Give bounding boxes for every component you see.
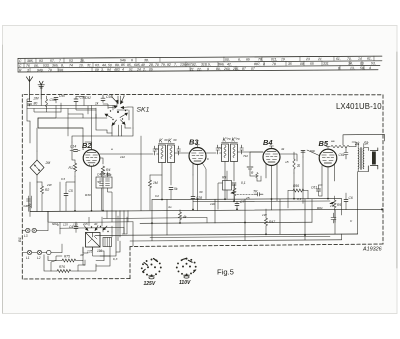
svg-text:31,: 31,	[87, 63, 92, 67]
svg-text:51: 51	[129, 68, 133, 72]
mains selector contacts	[84, 226, 109, 254]
parts table frame	[18, 56, 382, 72]
svg-text:5,: 5,	[208, 62, 211, 66]
svg-text:6,3: 6,3	[113, 257, 118, 261]
right section long wires	[303, 142, 356, 222]
extra top-left wires	[27, 98, 128, 119]
top-left bus wires	[27, 95, 117, 118]
svg-text:4: 4	[122, 68, 124, 72]
svg-text:4k: 4k	[183, 215, 187, 219]
supply bus line 3	[140, 222, 312, 223]
svg-text:4u: 4u	[168, 205, 172, 209]
svg-text:34,: 34,	[348, 62, 353, 66]
svg-text:0,1: 0,1	[297, 197, 302, 201]
tube B5	[319, 149, 337, 167]
svg-text:091: 091	[58, 68, 64, 72]
svg-text:30: 30	[199, 190, 203, 194]
trimmer caps beside ift2	[216, 145, 220, 154]
svg-text:L1: L1	[26, 256, 30, 260]
svg-text:C90: C90	[59, 94, 65, 98]
pickup diamond connector	[30, 151, 50, 182]
svg-text:3,: 3,	[101, 68, 104, 72]
svg-text:50,: 50,	[225, 58, 230, 62]
left bus joiner	[29, 205, 31, 217]
svg-text:866,: 866,	[218, 62, 225, 66]
pilot lamp row 2	[23, 250, 63, 260]
heater dropper resistor 1	[56, 255, 83, 263]
svg-text:14k: 14k	[210, 202, 215, 206]
supply bus line 1b	[193, 200, 330, 203]
tone cap near output	[344, 193, 353, 210]
output transformer	[358, 144, 368, 172]
svg-text:125: 125	[63, 223, 68, 227]
vertical drop B2 anode	[91, 166, 93, 211]
left boundary trimmer cluster	[24, 196, 32, 211]
svg-text:C92: C92	[85, 96, 91, 100]
svg-text:78: 78	[272, 62, 276, 66]
svg-text:SK1: SK1	[137, 107, 150, 114]
trimmer caps beside ift1	[153, 146, 157, 155]
table row 3 values	[19, 66, 371, 72]
svg-text:49: 49	[141, 63, 145, 67]
coupling wire B2 to IFT1	[100, 153, 159, 155]
svg-text:S: S	[297, 163, 300, 168]
svg-text:74: 74	[69, 63, 73, 67]
grid resistor B5 horizontal	[288, 184, 308, 208]
supply bus line 1a	[152, 199, 342, 200]
scattered value labels	[46, 137, 353, 261]
coupling wire B3 to IFT2	[206, 152, 222, 154]
svg-text:61,: 61,	[367, 57, 372, 61]
top line to output stage	[343, 134, 385, 145]
svg-text:2M: 2M	[33, 97, 39, 101]
svg-text:R61: R61	[317, 206, 323, 210]
svg-text:483: 483	[114, 68, 120, 72]
svg-text:C6: C6	[349, 196, 353, 200]
svg-text:GB: GB	[24, 204, 28, 208]
svg-text:09: 09	[95, 68, 99, 72]
tube B4	[263, 149, 280, 166]
svg-text:93: 93	[39, 59, 43, 63]
svg-text:R2: R2	[45, 188, 49, 192]
svg-text:57,: 57,	[50, 59, 55, 63]
svg-text:C61: C61	[311, 186, 317, 190]
svg-text:110: 110	[73, 222, 78, 226]
svg-text:R56: R56	[293, 184, 299, 188]
svg-text:94: 94	[107, 68, 111, 72]
svg-text:24: 24	[136, 68, 141, 72]
grid cap B5 wire	[280, 154, 297, 161]
svg-text:R1: R1	[69, 166, 73, 170]
svg-text:7k2: 7k2	[243, 154, 248, 158]
page right edge	[396, 52, 398, 268]
SK1 to bus vertical	[140, 136, 142, 211]
svg-text:6: 6	[131, 58, 133, 62]
svg-text:8: 8	[338, 66, 340, 70]
cap under B3	[191, 175, 202, 210]
mains transformer block	[86, 233, 101, 248]
svg-text:61,: 61,	[336, 57, 341, 61]
svg-text:06,: 06,	[34, 64, 39, 68]
svg-text:C14: C14	[70, 145, 76, 149]
supply bus line 5	[130, 240, 342, 241]
power feed ladder bottom-left	[44, 211, 133, 272]
mid horizontal wire over transformer	[60, 221, 133, 224]
B5 top grid coil	[331, 145, 349, 147]
svg-text:887,: 887,	[254, 62, 261, 66]
IF transformer 1	[153, 144, 181, 163]
svg-text:C7: C7	[240, 200, 244, 204]
svg-text:385,: 385,	[27, 59, 34, 63]
svg-text:44,: 44,	[102, 63, 107, 67]
vertical drop B2 screen	[102, 182, 104, 211]
svg-text:B4: B4	[263, 138, 272, 147]
svg-text:53,: 53,	[371, 61, 376, 65]
loudspeaker	[364, 148, 378, 172]
cap C100 top	[74, 96, 86, 105]
svg-text:07: 07	[251, 67, 255, 71]
small cap at mains	[69, 222, 78, 233]
supply bus line 2	[30, 209, 382, 211]
table row 1 values	[19, 57, 372, 64]
voltage selector dial 110V	[176, 258, 197, 278]
heater bus extra wires	[60, 211, 207, 238]
heater wiring	[48, 211, 127, 271]
svg-text:R75: R75	[64, 255, 70, 259]
cap C under volume	[235, 200, 244, 209]
svg-text:8,: 8,	[61, 63, 64, 67]
svg-text:C99: C99	[50, 98, 56, 102]
svg-text:R30: R30	[85, 193, 91, 197]
svg-text:89,: 89,	[115, 63, 120, 67]
svg-text:85: 85	[121, 63, 125, 67]
svg-text:u5: u5	[285, 160, 289, 164]
svg-text:76: 76	[26, 64, 30, 68]
svg-text:92: 92	[167, 63, 171, 67]
svg-text:70: 70	[227, 137, 231, 141]
auxiliary connector box	[103, 238, 112, 247]
svg-text:695,: 695,	[134, 63, 141, 67]
svg-text:318,: 318,	[201, 62, 208, 66]
IF transformer 2	[216, 143, 244, 162]
resistor under B4 right	[265, 209, 276, 234]
svg-text:SK2: SK2	[52, 222, 58, 226]
vertical drop output transformer	[342, 172, 358, 216]
B3 anode diagonal lead	[202, 163, 206, 200]
vertical drop IFT2	[225, 162, 234, 200]
coupling cap to B5 grid	[311, 185, 322, 196]
svg-text:2M: 2M	[45, 161, 51, 165]
screen resistor R_B2b	[101, 166, 111, 182]
svg-text:6: 6	[207, 157, 209, 161]
cap left mid	[64, 182, 75, 211]
svg-text:R76: R76	[59, 265, 65, 269]
svg-text:10,: 10,	[79, 63, 84, 67]
coupling wire IFT1 to B3	[175, 152, 190, 154]
svg-text:09: 09	[300, 62, 304, 66]
switch frame lines	[38, 96, 133, 142]
cap under IFT2	[232, 183, 236, 201]
mid-left vertical x60	[59, 182, 61, 211]
svg-text:0,1: 0,1	[241, 181, 246, 185]
svg-text:A19326: A19326	[362, 247, 382, 253]
svg-text:13,: 13,	[350, 66, 355, 70]
svg-text:19: 19	[281, 57, 285, 61]
svg-text:533,: 533,	[43, 64, 50, 68]
svg-text:16,: 16,	[80, 59, 85, 63]
resistor under B3	[179, 210, 187, 223]
electrolytic caps block	[96, 172, 112, 211]
svg-text:C3: C3	[61, 177, 65, 181]
svg-text:365,: 365,	[52, 64, 59, 68]
svg-text:50k: 50k	[310, 149, 315, 153]
svg-text:53: 53	[69, 59, 73, 63]
svg-text:70: 70	[218, 146, 222, 150]
vertical drop B4	[266, 164, 277, 201]
volume control block under B4	[218, 171, 263, 209]
svg-text:35: 35	[288, 62, 292, 66]
svg-text:79,: 79,	[161, 63, 166, 67]
svg-text:80: 80	[34, 102, 38, 106]
svg-text:20: 20	[154, 147, 159, 151]
svg-text:30: 30	[173, 138, 177, 142]
aerial coupling cap 2M	[27, 97, 38, 107]
svg-text:1M: 1M	[153, 181, 158, 185]
svg-text:R47: R47	[269, 220, 275, 224]
vertical drop coil S	[293, 173, 295, 199]
table tick marks	[24, 56, 374, 72]
svg-text:28,: 28,	[148, 63, 154, 67]
svg-text:50: 50	[98, 180, 102, 184]
svg-text:63,: 63,	[95, 63, 100, 67]
svg-text:L3: L3	[24, 234, 28, 238]
cap near SK1 top	[101, 95, 112, 103]
arrow marks near 343,145	[344, 147, 348, 159]
AVC resistor network left of B3	[149, 175, 163, 210]
svg-text:25: 25	[245, 196, 250, 200]
svg-text:1k: 1k	[95, 102, 99, 106]
input coil L1	[46, 96, 56, 109]
svg-text:1%: 1%	[330, 204, 335, 208]
left vertical wire from input to bus	[27, 106, 37, 212]
svg-text:Fig.5: Fig.5	[217, 268, 234, 277]
svg-text:C5: C5	[69, 189, 73, 193]
svg-text:21: 21	[317, 57, 322, 61]
svg-text:B2: B2	[82, 141, 92, 150]
svg-text:14: 14	[358, 57, 362, 61]
left nested wires to B2	[38, 118, 103, 164]
tube top grid stubs	[92, 110, 331, 150]
svg-text:7: 7	[59, 59, 61, 63]
svg-text:C46 C45: C46 C45	[97, 173, 110, 177]
svg-text:79: 79	[48, 68, 52, 72]
tube B3	[189, 148, 206, 165]
svg-text:949,: 949,	[37, 68, 44, 72]
vertical drop R1 bottom	[74, 176, 76, 211]
svg-text:92,: 92,	[192, 63, 197, 67]
cathode resistor B5	[330, 196, 341, 210]
svg-text:70: 70	[155, 63, 159, 67]
table row 2 values	[19, 61, 376, 68]
smoothing resistor left	[37, 182, 49, 211]
heater dropper resistor 2	[51, 265, 78, 273]
svg-text:a: a	[111, 147, 113, 151]
svg-text:125V: 125V	[144, 281, 156, 287]
voltage selector dial 125V	[141, 259, 162, 279]
svg-text:C93: C93	[106, 95, 112, 99]
svg-text:1k2: 1k2	[120, 155, 125, 159]
svg-text:70,: 70,	[347, 57, 352, 61]
svg-text:C2: C2	[155, 194, 159, 198]
svg-text:4k: 4k	[281, 147, 285, 151]
svg-text:C61: C61	[339, 153, 345, 157]
svg-text:R5: R5	[337, 203, 341, 207]
coupling wire IFT2 to B4	[238, 151, 264, 153]
svg-text:260,: 260,	[223, 67, 231, 71]
svg-text:aa: aa	[331, 139, 335, 143]
vertical feeders crossing buses	[152, 199, 358, 241]
coupling cap B4-B5	[303, 150, 319, 157]
svg-text:4: 4	[369, 66, 371, 70]
B4 cathode parts	[251, 171, 261, 181]
vertical drop B3	[193, 163, 198, 199]
svg-text:55: 55	[310, 62, 314, 66]
svg-text:R9: R9	[222, 176, 226, 180]
svg-text:R4: R4	[106, 168, 110, 172]
svg-text:87: 87	[242, 67, 246, 71]
svg-text:011,: 011,	[271, 57, 277, 61]
dashed chassis border	[22, 95, 383, 280]
svg-text:42,: 42,	[227, 62, 232, 66]
vertical drop IFT1	[162, 163, 171, 200]
svg-text:9: 9	[207, 67, 209, 71]
anode coil B4 (S)	[293, 152, 300, 173]
svg-text:50: 50	[108, 63, 112, 67]
svg-text:3: 3	[27, 68, 29, 72]
svg-text:80,: 80,	[216, 67, 221, 71]
svg-text:5k: 5k	[174, 187, 178, 191]
grid cap B2	[70, 145, 80, 152]
svg-text:L2: L2	[37, 256, 41, 260]
cathode resistor R_B2	[69, 160, 77, 176]
svg-text:95,: 95,	[127, 63, 132, 67]
svg-text:546: 546	[120, 58, 126, 62]
svg-text:38,: 38,	[144, 58, 149, 62]
supply bus line 4b	[150, 236, 330, 237]
tube B2	[83, 150, 100, 167]
svg-text:30: 30	[164, 138, 168, 142]
page left edge	[2, 45, 4, 313]
svg-text:40: 40	[94, 222, 98, 226]
svg-text:23: 23	[305, 57, 310, 61]
svg-text:21: 21	[189, 67, 194, 71]
supply bus line 4	[95, 234, 358, 235]
svg-text:05: 05	[149, 68, 153, 72]
SK1 rotary switch	[105, 95, 128, 126]
svg-text:B3: B3	[189, 138, 199, 147]
svg-text:2x5: 2x5	[82, 222, 88, 226]
svg-text:110V: 110V	[179, 280, 191, 286]
B4 grid-left wire	[247, 152, 263, 176]
svg-text:70: 70	[236, 137, 240, 141]
junction dots on buses	[74, 198, 329, 236]
cap under IFT1	[169, 187, 178, 200]
vertical drop B5	[322, 165, 335, 199]
svg-text:LX401UB-10: LX401UB-10	[336, 102, 382, 111]
output to bus corner wires	[331, 208, 383, 223]
svg-text:331: 331	[323, 62, 329, 66]
svg-text:65: 65	[246, 57, 250, 61]
svg-text:22,: 22,	[196, 67, 202, 71]
selector voltage tick labels	[57, 222, 98, 227]
antenna	[26, 76, 32, 99]
svg-text:B1: B1	[17, 237, 22, 242]
svg-text:6,: 6,	[238, 58, 241, 62]
svg-text:7,: 7,	[174, 63, 177, 67]
ground (earth)	[38, 81, 44, 99]
pilot lamp row 1	[23, 228, 49, 238]
svg-text:2,: 2,	[142, 68, 146, 72]
